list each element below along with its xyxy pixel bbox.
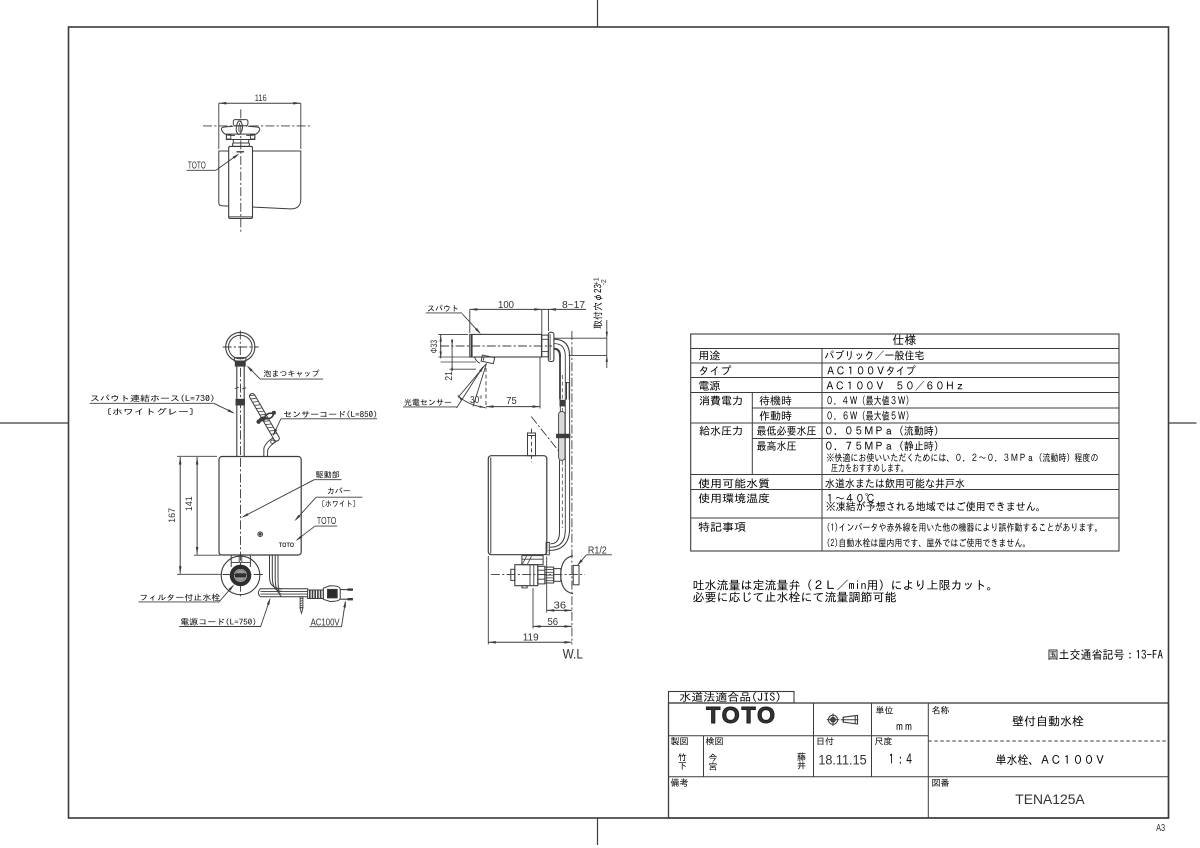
filter nut dark ring xyxy=(232,567,249,584)
spout outlet circle xyxy=(226,332,255,361)
svg-text:TOTO: TOTO xyxy=(317,516,337,527)
spout centerline xyxy=(440,345,552,347)
svg-text:30°: 30° xyxy=(470,395,483,406)
ground wire xyxy=(300,597,303,608)
extension lines xyxy=(469,309,471,333)
side box cover xyxy=(488,456,547,555)
TOTO mark on spout xyxy=(236,151,244,153)
sensor cord to box xyxy=(268,441,278,457)
svg-text:TOTO: TOTO xyxy=(279,542,294,549)
name cell dashed divider xyxy=(928,740,1168,742)
indicator dot xyxy=(258,532,263,537)
frame center tick right xyxy=(1169,422,1197,424)
mounting hole dim lines xyxy=(554,337,607,339)
svg-text:8~17: 8~17 xyxy=(562,300,585,311)
box centerline xyxy=(240,458,242,597)
sensor window under spout xyxy=(475,357,481,363)
dim 116 line xyxy=(219,102,301,104)
cover body top view xyxy=(219,151,229,206)
spec table rows xyxy=(699,351,720,361)
wall pipe vertical xyxy=(559,356,561,400)
nut xyxy=(538,566,545,584)
valve centerline xyxy=(223,574,265,576)
label mounting hole phi23 (rotated) xyxy=(593,284,602,328)
collar 2 xyxy=(233,143,250,146)
svg-text:A3: A3 xyxy=(1156,823,1165,834)
aerator cap (dark band) xyxy=(235,362,245,367)
centerline horizontal xyxy=(203,125,311,127)
spout cylinder xyxy=(229,146,253,218)
main box cover (front) xyxy=(219,457,301,556)
diagonal dash link xyxy=(531,417,565,460)
svg-text:W.L: W.L xyxy=(563,646,583,662)
centerline vertical xyxy=(240,109,242,232)
label cover (white) xyxy=(328,487,350,494)
pipe clamp (dark) xyxy=(560,400,565,406)
stop valve outer circle xyxy=(221,556,260,595)
R1/2 connection behind wall xyxy=(573,565,579,584)
hose break ticks xyxy=(235,387,239,388)
svg-text:Φ33: Φ33 xyxy=(429,340,439,354)
hose bracket xyxy=(566,383,568,400)
flange bar xyxy=(226,134,254,139)
pipe sleeve (gray) xyxy=(559,412,565,461)
neck collar xyxy=(234,358,246,361)
drafter cells xyxy=(671,737,688,745)
inlet from box xyxy=(522,556,543,565)
label photo sensor xyxy=(404,399,451,406)
label spout hose L=730 xyxy=(91,395,213,402)
svg-text:119: 119 xyxy=(523,632,539,643)
remarks cell xyxy=(671,779,688,787)
cord horizontal run xyxy=(258,589,308,597)
label sensor cord L=850 xyxy=(284,411,376,418)
svg-text:TENA125A: TENA125A xyxy=(1015,792,1085,807)
third angle projection symbol xyxy=(828,715,837,724)
spec table header SHIYO xyxy=(893,334,916,345)
svg-text:18.11.15: 18.11.15 xyxy=(818,752,866,767)
dim extension verticals xyxy=(546,557,548,613)
knurled gray disc xyxy=(235,570,246,581)
svg-text:36: 36 xyxy=(554,601,566,612)
valve body xyxy=(515,565,538,586)
note below table xyxy=(694,580,991,591)
drawing number cell xyxy=(932,779,949,787)
wall flange plate xyxy=(548,332,554,361)
W.L wall line xyxy=(571,331,573,645)
supply hose xyxy=(236,366,238,456)
spec table horizontal rules xyxy=(691,348,1119,350)
pipe after sleeve xyxy=(559,460,561,532)
name cell xyxy=(932,706,949,714)
label power cord L=750 xyxy=(181,618,255,625)
label drive unit xyxy=(316,471,339,478)
JIS tab xyxy=(669,692,795,704)
collar 1 xyxy=(233,140,248,144)
label filter stop valve xyxy=(141,594,220,601)
svg-text:167: 167 xyxy=(167,508,178,523)
connector xyxy=(554,569,561,582)
dim 141 xyxy=(196,457,198,555)
plug prongs xyxy=(340,589,353,591)
svg-text:116: 116 xyxy=(255,93,267,104)
sleeve joint (dark) xyxy=(557,434,570,438)
power cord from box xyxy=(270,555,283,589)
sensor cord wrapped rod xyxy=(248,393,280,443)
cord chain details xyxy=(257,420,260,423)
spout body xyxy=(470,334,542,357)
svg-text:75: 75 xyxy=(506,396,517,407)
stem box to valve xyxy=(230,556,232,567)
svg-text:-2: -2 xyxy=(599,279,608,285)
dim 116 extension lines xyxy=(218,103,220,149)
unit cell xyxy=(876,706,893,714)
plug body xyxy=(323,586,340,602)
svg-text:21: 21 xyxy=(444,371,455,381)
hose dark band xyxy=(236,399,245,405)
label awamatsu cap xyxy=(264,370,319,377)
box top stub xyxy=(528,433,536,456)
MLIT mark 13-FA xyxy=(1049,649,1163,660)
svg-text:141: 141 xyxy=(184,496,195,511)
screw slot xyxy=(235,574,245,577)
box corner tab xyxy=(546,542,549,554)
label spout (side) xyxy=(428,305,458,312)
valve centerline (side) xyxy=(491,574,585,576)
title block outline xyxy=(669,703,1169,818)
pipe bottom curve into box xyxy=(549,528,570,551)
30 deg angle lines xyxy=(458,364,487,398)
handle cap xyxy=(233,120,248,126)
stem behind spout xyxy=(542,335,549,357)
plug strain relief xyxy=(308,590,324,599)
svg-text:TOTO: TOTO xyxy=(706,702,777,728)
circle crosshair xyxy=(223,346,259,348)
spec table outline xyxy=(691,334,1119,551)
frame center tick left xyxy=(0,422,69,424)
threaded section xyxy=(545,567,554,583)
frame center tick bottom xyxy=(597,818,599,845)
wall escutcheon dome xyxy=(561,556,573,594)
handle lever blade xyxy=(236,121,242,135)
dim phi33 xyxy=(440,335,442,359)
dim 21 xyxy=(451,339,453,367)
elbow pipe xyxy=(554,339,570,356)
frame center tick top xyxy=(597,0,599,27)
dim 167 xyxy=(179,457,181,574)
handle wings xyxy=(221,126,235,135)
spec table vertical rules xyxy=(821,349,823,552)
